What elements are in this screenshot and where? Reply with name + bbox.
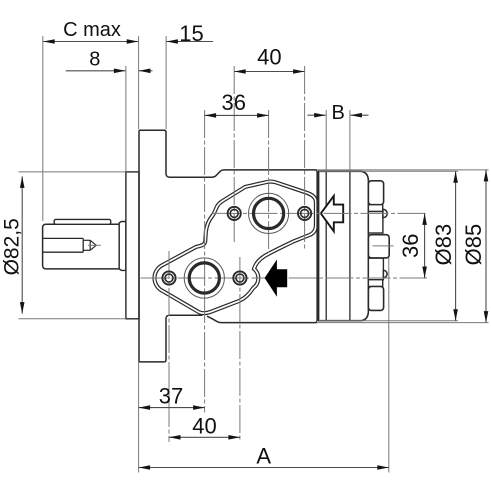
- dimension 8: [66, 70, 126, 72]
- dimension B: [308, 114, 326, 116]
- extension pilot bottom: [19, 318, 126, 320]
- extension B left: [325, 110, 327, 170]
- svg-text:36: 36: [222, 90, 246, 115]
- threaded center hole: [43, 237, 84, 239]
- check valve boss: [368, 235, 389, 258]
- body top profile: [166, 170, 317, 177]
- extension body top (dia 85): [317, 169, 489, 171]
- bolt hole bottom-left: [162, 271, 175, 284]
- port face plate outline (double line): [154, 182, 315, 314]
- port boss top: [368, 181, 383, 205]
- extension flange right: [165, 36, 167, 129]
- svg-text:8: 8: [89, 49, 100, 71]
- svg-text:15: 15: [179, 21, 203, 46]
- extension flange left face bottom: [138, 362, 140, 473]
- dimension 15: [166, 41, 213, 43]
- extension B right: [349, 110, 351, 170]
- shaft: [43, 224, 120, 269]
- port dome bottom: [383, 270, 387, 277]
- centerline bottom port row: [141, 277, 428, 279]
- port seat bottom: [368, 258, 383, 280]
- neck ring: [119, 222, 126, 271]
- port band top: [368, 205, 382, 212]
- centerline bottom-right hole: [239, 257, 241, 442]
- port seat top: [368, 212, 383, 234]
- port boss bottom: [368, 287, 383, 311]
- svg-text:B: B: [332, 102, 345, 124]
- port dome top: [383, 209, 387, 218]
- centerline bottom-left hole: [168, 251, 170, 442]
- dimension 36 top: [205, 114, 269, 116]
- extension body bottom (dia 85): [317, 322, 489, 324]
- centerline top-right hole: [304, 66, 306, 250]
- svg-text:A: A: [256, 443, 271, 468]
- extension boss right / A: [388, 258, 390, 473]
- extension shaft end: [42, 36, 44, 221]
- flow arrow (solid): [265, 260, 288, 297]
- bolt hole bottom-right: [233, 271, 246, 284]
- dimension dia 83: [455, 171, 457, 320]
- top port circle: [249, 193, 289, 233]
- extension flange left: [138, 36, 140, 129]
- svg-text:Ø83: Ø83: [431, 224, 456, 266]
- dimension 37: [139, 407, 205, 409]
- svg-text:Ø82,5: Ø82,5: [1, 218, 24, 275]
- gerotor section line: [325, 172, 327, 321]
- svg-text:40: 40: [192, 414, 216, 439]
- body right edge: [316, 170, 318, 172]
- extension cap top (dia 83): [319, 170, 458, 172]
- flow arrow (outline): [321, 196, 343, 231]
- dimension 36 right: [424, 213, 426, 278]
- dimension dia 85: [485, 170, 487, 323]
- svg-text:37: 37: [159, 384, 183, 409]
- svg-text:Ø85: Ø85: [461, 224, 486, 266]
- centerline top-left hole: [233, 66, 235, 242]
- shaft key: [54, 219, 110, 224]
- body bottom profile: [166, 315, 203, 318]
- dimension C max: [43, 41, 138, 43]
- centerline top port row: [213, 212, 428, 214]
- end cap: [319, 171, 369, 320]
- shaft axis centerline: [88, 244, 101, 246]
- svg-text:C max: C max: [63, 19, 121, 41]
- pilot boss: [126, 172, 139, 319]
- extension cap bottom (dia 83): [319, 320, 458, 322]
- svg-text:36: 36: [398, 233, 423, 257]
- svg-text:40: 40: [257, 44, 281, 69]
- extension pilot left: [125, 66, 127, 171]
- extension pilot top: [19, 171, 126, 173]
- centerline top port: [268, 110, 270, 253]
- port band bottom: [368, 280, 382, 287]
- centerline check valve: [373, 245, 394, 247]
- dimension 40 top: [234, 71, 304, 73]
- dimension dia 82,5: [21, 176, 23, 313]
- dimension 40 bottom: [169, 436, 240, 438]
- centerline bottom port / 36-37 extension: [204, 110, 206, 413]
- end cover section line: [349, 172, 351, 321]
- bottom port circle: [184, 258, 224, 298]
- dimension A: [139, 467, 389, 469]
- bolt hole top-left: [228, 207, 241, 220]
- flange plate: [138, 130, 140, 362]
- bolt hole top-right: [298, 207, 311, 220]
